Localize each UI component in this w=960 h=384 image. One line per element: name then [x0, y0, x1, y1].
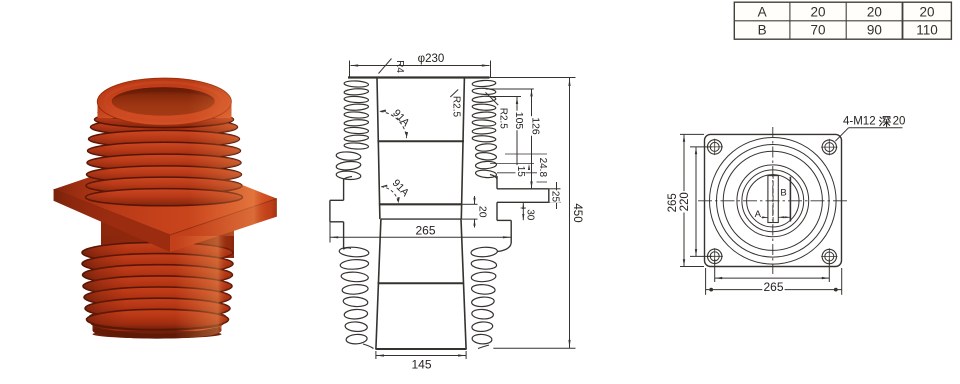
svg-text:91A: 91A: [390, 107, 412, 129]
section: cavity step line 1: [377, 140, 464, 142]
svg-text:91A: 91A: [390, 177, 412, 199]
top view: 4 bolt holes M12: [708, 140, 722, 154]
dim 25 flange: [549, 188, 561, 190]
cup inner opening: [112, 87, 215, 115]
dim 265 section: [329, 222, 331, 243]
svg-text:R2.5: R2.5: [497, 108, 508, 130]
top view: square flange outline: [705, 134, 842, 266]
upper-left thread spring: [344, 80, 369, 87]
dim 126: [486, 88, 534, 90]
svg-text:20: 20: [919, 4, 934, 19]
right outer wall upper: [496, 176, 498, 189]
dim 91A lower: [381, 187, 398, 204]
svg-text:4-M12: 4-M12: [843, 116, 876, 128]
svg-text:20: 20: [893, 116, 906, 128]
data table A/B: [734, 2, 951, 39]
dim 91A upper: [380, 112, 406, 138]
dim 30: [521, 207, 526, 209]
section: lower cavity walls: [376, 219, 381, 349]
svg-text:20: 20: [867, 4, 882, 19]
dim 265 bottom: [705, 268, 707, 295]
dim 220 left: [690, 146, 712, 148]
section: web top: [379, 203, 462, 205]
dim phi230: [349, 61, 351, 78]
dim 145: [376, 355, 467, 357]
svg-text:25: 25: [549, 191, 560, 203]
svg-text:126: 126: [530, 117, 542, 135]
right flange boss: [497, 188, 549, 190]
dim 15: [490, 163, 534, 165]
svg-text:265: 265: [763, 280, 783, 294]
svg-text:90: 90: [867, 23, 882, 38]
left outer wall upper: [343, 179, 345, 201]
upper-right thread spring: [472, 80, 496, 87]
svg-text:B: B: [780, 187, 786, 198]
section: lower cavity shelf: [378, 282, 464, 284]
svg-text:R2.5: R2.5: [451, 96, 462, 118]
svg-text:265: 265: [667, 193, 679, 212]
svg-text:145: 145: [411, 358, 431, 372]
top cup rim: [98, 100, 232, 118]
body neck behind flange: [101, 220, 234, 259]
dim 105: [490, 96, 521, 98]
dim 24.8: [505, 153, 547, 155]
dim 20 web: [462, 203, 478, 205]
svg-text:A: A: [758, 4, 767, 19]
upper thread ribs: [91, 119, 238, 136]
svg-text:105: 105: [513, 112, 525, 130]
top view: center lines: [772, 127, 774, 274]
left wall below flange: [343, 222, 345, 250]
section: top face: [348, 76, 490, 78]
svg-text:20: 20: [810, 4, 825, 19]
lower-left thread spring: [339, 246, 369, 257]
right wall below flange: [496, 202, 498, 220]
label R4: [379, 59, 392, 74]
svg-text:450: 450: [571, 203, 583, 222]
label R2.5 left: [450, 90, 458, 98]
svg-text:30: 30: [525, 209, 536, 221]
top view: busbar slot: [768, 176, 778, 223]
square flange plate: [54, 153, 277, 235]
label R2.5 right: [486, 92, 499, 105]
svg-text:220: 220: [679, 192, 691, 211]
lower thread ribs: [82, 242, 233, 262]
section: web bottom: [381, 218, 461, 220]
section: bottom face: [375, 348, 466, 350]
dim bolt spacing bottom: [714, 259, 716, 282]
svg-text:70: 70: [810, 23, 825, 38]
lower-right thread spring: [471, 246, 498, 257]
svg-text:265: 265: [415, 224, 435, 238]
svg-text:15: 15: [515, 166, 526, 178]
top view: concentric circles: [710, 138, 837, 265]
svg-text:24.8: 24.8: [537, 158, 548, 178]
dim 265 left: [680, 133, 704, 135]
top cup neck rings: [95, 111, 234, 127]
svg-text:A: A: [755, 209, 762, 220]
svg-text:B: B: [758, 23, 767, 38]
right step: [497, 219, 511, 221]
top view: slot position line B: [789, 177, 791, 222]
svg-text:φ230: φ230: [418, 53, 445, 65]
svg-text:20: 20: [477, 206, 489, 218]
dim 450: [490, 77, 576, 79]
bushing base cylinder: [93, 310, 222, 339]
left flange: [330, 199, 344, 201]
base bottom rim rings: [90, 310, 226, 324]
section: upper cavity walls: [377, 78, 380, 219]
svg-text:R4: R4: [394, 60, 405, 73]
svg-text:110: 110: [916, 23, 938, 38]
